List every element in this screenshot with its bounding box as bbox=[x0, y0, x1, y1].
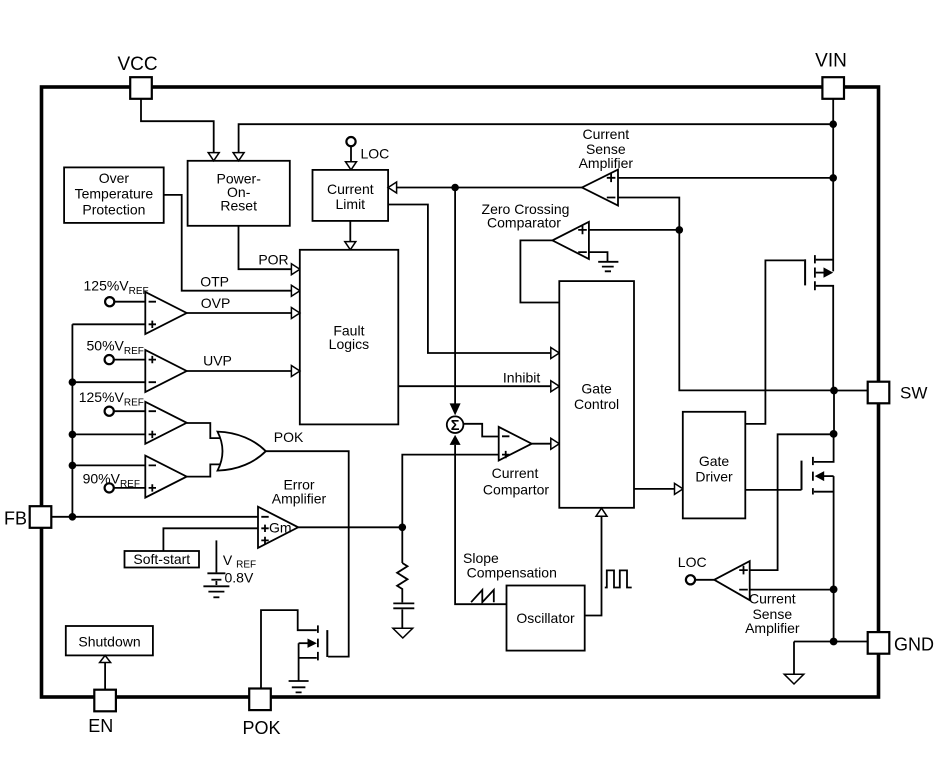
svg-text:VIN: VIN bbox=[815, 51, 847, 72]
svg-text:Soft-start: Soft-start bbox=[133, 551, 190, 567]
pin FB bbox=[30, 506, 52, 528]
pin SW bbox=[868, 382, 890, 404]
wire UVP output to Fault Logics bbox=[187, 370, 300, 372]
wire VIN branch to current sense amplifier + input bbox=[618, 177, 833, 179]
node rail-POK-upper junction bbox=[69, 431, 77, 439]
terminal circle POK lower reference input bbox=[105, 483, 114, 492]
svg-text:Slope: Slope bbox=[463, 550, 499, 566]
wire current comparator output to Gate Control bbox=[532, 443, 560, 445]
wire Gate Control output to Gate Driver bbox=[634, 488, 683, 490]
svg-text:UVP: UVP bbox=[203, 352, 232, 368]
arrowhead into Shutdown from EN bbox=[100, 655, 111, 662]
arrowhead into Gate Driver bbox=[675, 483, 684, 494]
node CSA minus GND rail junction bbox=[830, 586, 838, 594]
wire SW node down to low-side drain node bbox=[833, 391, 835, 434]
wire Fault Logics Inhibit output to Gate Control bbox=[398, 385, 559, 387]
svg-text:Shutdown: Shutdown bbox=[78, 634, 140, 650]
wire GND node to ground arrow bbox=[793, 642, 795, 674]
node rail-UVP junction bbox=[69, 378, 77, 386]
transistor Q1 body arrow bbox=[816, 272, 824, 274]
terminal circle UVP reference input bbox=[105, 355, 114, 364]
node error amp output junction bbox=[399, 524, 407, 532]
op-amp error amplifier Gm bbox=[258, 507, 298, 548]
wire OVP ref stub bbox=[114, 301, 145, 303]
wire VIN branch to Power-On-Reset (top long line) bbox=[239, 124, 834, 160]
wire ZCC output to Gate Control bbox=[520, 240, 559, 302]
svg-text:FaultLogics: FaultLogics bbox=[329, 323, 369, 352]
wire slope compensation from oscillator to summer bbox=[455, 445, 506, 604]
box Power-On-Reset U2 bbox=[188, 161, 290, 226]
wire error amp output down to compensation network bbox=[401, 527, 403, 563]
svg-text:Comparator: Comparator bbox=[487, 215, 561, 231]
comparator POK upper (125%) bbox=[145, 402, 186, 444]
wire bottom CSA - input to GND rail bbox=[750, 589, 835, 591]
wire ZCC - input to ground bbox=[589, 252, 608, 261]
transistor Q1 source lead to SW bbox=[816, 286, 834, 391]
wire from CSA output node down to summer bbox=[454, 188, 456, 404]
box Oscillator bbox=[507, 586, 585, 651]
IC boundary border bbox=[42, 87, 879, 697]
svg-text:GateDriver: GateDriver bbox=[695, 453, 733, 485]
terminal circle OVP reference input bbox=[105, 297, 114, 306]
arrowhead OVP into Fault Logics bbox=[291, 308, 300, 319]
arrowhead into Gate Control from Current Limit bbox=[551, 348, 560, 359]
ground for ZCC bbox=[598, 262, 618, 272]
transistor Q2 gate bar bbox=[801, 461, 803, 490]
wire VCC to Power-On-Reset bbox=[141, 99, 214, 160]
svg-text:Current: Current bbox=[492, 465, 539, 481]
arrowhead into summer top (filled) bbox=[450, 403, 461, 415]
wire VREF source to error amplifier + input bbox=[215, 540, 217, 572]
arrowhead into Current Limit right edge bbox=[388, 182, 397, 193]
wire drain node to current sense tap bbox=[750, 434, 834, 570]
svg-text:OVP: OVP bbox=[201, 295, 231, 311]
wire FB pin to error amplifier - input bbox=[52, 516, 258, 518]
arrowhead into POR from VIN line bbox=[233, 153, 244, 161]
slope compensation sawtooth symbol bbox=[471, 590, 494, 602]
svg-text:Amplifier: Amplifier bbox=[272, 490, 327, 506]
transistor Q3 gate bar bbox=[326, 630, 328, 657]
svg-text:CurrentSenseAmplifier: CurrentSenseAmplifier bbox=[579, 126, 634, 171]
wire FB sense rail bbox=[72, 324, 145, 517]
box Fault Logics bbox=[300, 250, 399, 425]
wire CSA minus input down to SW node bbox=[618, 198, 834, 391]
wire ZCC + input to tap node bbox=[589, 229, 679, 231]
svg-text:Oscillator: Oscillator bbox=[516, 610, 575, 626]
wire Gate Driver to low-side gate bbox=[745, 489, 801, 491]
arrowhead UVP into Fault Logics bbox=[291, 366, 300, 377]
wire CSA output to Current Limit input bbox=[388, 187, 582, 189]
node low-side drain junction bbox=[830, 430, 838, 438]
svg-text:LOC: LOC bbox=[678, 554, 707, 570]
svg-text:POR: POR bbox=[258, 252, 288, 268]
svg-text:SW: SW bbox=[900, 384, 927, 403]
svg-text:Σ: Σ bbox=[451, 418, 460, 434]
wire GND node to GND pin bbox=[794, 641, 867, 643]
wire VIN rail down right side bbox=[832, 99, 834, 272]
node rail-FB junction bbox=[69, 513, 77, 521]
transistor Q1 drain lead bbox=[816, 259, 834, 261]
svg-text:GND: GND bbox=[894, 635, 934, 655]
wire OTP box to Fault Logics (OTP signal) bbox=[164, 195, 300, 291]
pin POK bbox=[249, 689, 271, 711]
wire Gate Driver to high-side gate bbox=[745, 260, 804, 424]
wire error amplifier output bbox=[298, 526, 402, 528]
wire POR box to Fault Logics (POR signal) bbox=[239, 226, 300, 269]
svg-text:Compartor: Compartor bbox=[483, 482, 549, 498]
gate OR (POK) bbox=[218, 432, 266, 471]
resistor compensation bbox=[397, 563, 407, 602]
comparator OVP bbox=[145, 292, 186, 334]
pin VIN bbox=[822, 77, 844, 99]
node rail-POK-lower junction bbox=[69, 462, 77, 470]
terminal circle LOC (bottom) bbox=[686, 575, 695, 584]
box Soft-start bbox=[125, 551, 200, 568]
ground below VREF battery bbox=[203, 585, 229, 587]
arrowhead Inhibit into Gate Control bbox=[551, 381, 560, 392]
wire POK lower ref stub bbox=[114, 487, 146, 489]
comparator POK lower (90%) bbox=[145, 456, 186, 498]
wire POK upper ref stub bbox=[114, 410, 146, 412]
op-amp current comparator bbox=[499, 427, 532, 461]
wire summer output to current comparator - input bbox=[463, 424, 498, 437]
svg-text:FB: FB bbox=[4, 509, 27, 529]
comparator UVP bbox=[145, 350, 186, 392]
pin GND bbox=[868, 632, 890, 654]
svg-text:CurrentSenseAmplifier: CurrentSenseAmplifier bbox=[745, 591, 800, 637]
transistor Q3 source lead bbox=[299, 643, 317, 680]
node VIN-POR branch junction bbox=[829, 120, 837, 128]
ground for POK transistor bbox=[289, 681, 309, 692]
wire Current Limit output to Fault Logics bbox=[349, 221, 351, 249]
transistor Q1 channel segments bbox=[814, 255, 816, 290]
box Current Limit bbox=[313, 170, 389, 221]
svg-text:POK: POK bbox=[242, 718, 280, 738]
box Gate Driver bbox=[683, 412, 746, 519]
svg-text:LOC: LOC bbox=[361, 145, 390, 161]
wire oscillator to Gate Control bbox=[585, 517, 602, 616]
node zero crossing comparator tap bbox=[676, 226, 684, 234]
op-amp zero crossing comparator bbox=[552, 222, 589, 259]
arrowhead into Gate Control bottom from oscillator bbox=[596, 508, 607, 516]
capacitor compensation bbox=[393, 603, 414, 608]
clock pulse symbol bbox=[605, 570, 632, 587]
box Shutdown bbox=[66, 626, 153, 655]
node SW junction bbox=[830, 387, 838, 395]
svg-text:Inhibit: Inhibit bbox=[503, 370, 540, 386]
wire POK signal from OR gate to POK transistor gate bbox=[266, 451, 349, 656]
summer junction circle bbox=[447, 416, 464, 433]
svg-text:VCC: VCC bbox=[117, 54, 157, 75]
wire OVP output to Fault Logics bbox=[187, 312, 300, 314]
svg-text:EN: EN bbox=[88, 716, 113, 736]
transistor Q3 POK open-drain MOSFET channel segments bbox=[317, 625, 319, 660]
arrowhead POR into Fault Logics bbox=[291, 264, 300, 275]
pin VCC bbox=[130, 77, 152, 99]
box Over Temperature Protection bbox=[64, 167, 164, 223]
battery VREF 0.8V bbox=[207, 572, 225, 574]
arrowhead into summer bottom (filled) bbox=[450, 435, 461, 445]
wire error amp output up to current comparator + input bbox=[402, 455, 498, 528]
wire Current Limit to Gate Control bbox=[388, 205, 559, 354]
transistor Q3 body arrow bbox=[299, 642, 308, 644]
wire comparator3 output into OR gate bbox=[187, 423, 224, 438]
arrowhead OTP into Fault Logics bbox=[291, 285, 300, 296]
node CSA output to summer branch bbox=[451, 184, 459, 192]
transistor Q2 channel segments bbox=[812, 457, 814, 495]
svg-text:Gm: Gm bbox=[269, 519, 292, 535]
svg-text:Compensation: Compensation bbox=[467, 565, 557, 581]
wire EN pin to Shutdown bbox=[104, 661, 106, 690]
node VIN-CSA branch junction bbox=[829, 174, 837, 182]
pin EN bbox=[94, 690, 116, 712]
arrowhead into POR from VCC bbox=[208, 153, 219, 161]
wire Soft-start to error amplifier + input bbox=[163, 528, 258, 551]
ground arrow below compensation bbox=[393, 628, 413, 638]
svg-text:OTP: OTP bbox=[200, 274, 229, 290]
transistor Q2 body arrow bbox=[824, 475, 834, 477]
arrowhead into Gate Control from current comparator bbox=[551, 438, 560, 449]
op-amp current sense amplifier (top) bbox=[582, 170, 618, 206]
terminal circle POK upper reference input bbox=[105, 407, 114, 416]
box Gate Control bbox=[559, 281, 634, 508]
wire UVP ref stub bbox=[114, 359, 146, 361]
node GND junction bbox=[830, 638, 838, 646]
op-amp current sense amplifier (bottom) bbox=[714, 561, 750, 600]
svg-text:POK: POK bbox=[274, 429, 304, 445]
arrowhead Current Limit into Fault Logics bbox=[345, 242, 356, 250]
transistor Q1 high-side MOSFET gate bar bbox=[804, 259, 806, 285]
pin LOC (top) terminal circle bbox=[346, 137, 355, 146]
transistor Q2 source lead and GND rail bbox=[814, 476, 834, 641]
wire POK pin up to POK transistor drain bbox=[261, 610, 317, 688]
wire LOC circle to bottom CSA output bbox=[695, 579, 714, 581]
arrowhead LOC into Current Limit bbox=[346, 162, 357, 170]
wire comparator4 output into OR gate bbox=[187, 464, 224, 476]
ground arrow bottom right bbox=[784, 674, 804, 684]
wire SW node to SW pin bbox=[834, 390, 867, 392]
transistor Q2 low-side MOSFET drain lead bbox=[814, 434, 834, 462]
wire LOC to Current Limit bbox=[350, 146, 352, 169]
svg-text:0.8V: 0.8V bbox=[225, 570, 254, 586]
